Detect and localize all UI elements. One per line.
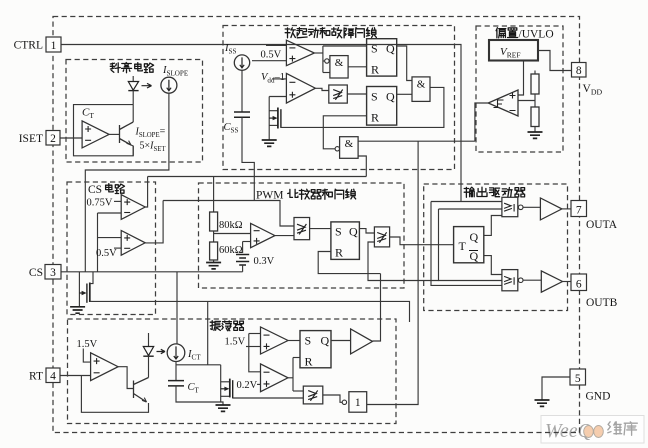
AND gate A2: [412, 77, 430, 102]
ground below M_ss: [262, 140, 277, 146]
pin 1 box: [46, 37, 61, 52]
wire between 80k and 60k: [213, 231, 215, 242]
OR gate O_osc: [303, 386, 323, 404]
current source I_SLOPE: [161, 77, 177, 93]
SR latch SR1: [367, 39, 397, 76]
transistor Q1: [120, 122, 134, 145]
wire O_out to T flip-flop: [390, 237, 454, 245]
resistor 60k: [210, 242, 218, 260]
svg-text:Q: Q: [386, 42, 395, 56]
CS circuit dashed box: [67, 182, 156, 315]
wire M_osc gate to OR: [233, 397, 304, 399]
wire UVLO output to shutdown AND: [475, 103, 488, 141]
wire Q1 emitter to loop: [131, 145, 133, 156]
svg-text:1.5V: 1.5V: [77, 339, 98, 350]
title zhen-dang-qi (oscillator): [210, 321, 243, 331]
pin 7 box: [571, 201, 587, 217]
capacitor C_SS: [234, 112, 250, 117]
pin 3 box: [45, 265, 61, 280]
UVLO hysteresis comparator: [488, 90, 518, 116]
svg-text:R: R: [305, 355, 313, 369]
svg-text:7: 7: [576, 204, 582, 216]
OR gate O1: [329, 85, 348, 103]
mirror arrow to I_CT: [157, 349, 166, 353]
pin 2 box: [46, 131, 60, 146]
svg-text:Q: Q: [321, 334, 330, 348]
wire second input of output OR from blanking: [368, 242, 439, 281]
oscillator SR latch: [300, 331, 331, 368]
long rail soft-start to CS comparator: [148, 176, 367, 178]
wire 60k to ground: [213, 260, 215, 263]
wire CS input rail: [61, 271, 243, 273]
wire latch Q to output OR: [359, 229, 374, 233]
wire soft-start voltage to comparator plus: [269, 96, 286, 98]
battery 0.3V offset: [242, 242, 244, 254]
svg-text:GND: GND: [586, 391, 611, 403]
inverter gate 1: [349, 392, 367, 413]
title ruan-qi-dong-he-gu-zhang-shan-suo (soft start and fault latch): [285, 28, 376, 38]
wire A3 output down to PWM rail: [358, 156, 366, 177]
wire divider tap to PWM comparator minus: [214, 233, 251, 235]
wire M_cs source to oscillator rail: [90, 300, 92, 302]
comparator U_ss2: [286, 73, 315, 103]
wire U_osc2 out to latch R and OR: [288, 377, 293, 379]
wire CS rail down to I_CT: [176, 272, 178, 344]
svg-text:&: &: [345, 138, 354, 150]
wire SR2 R input from reset net: [323, 116, 366, 149]
wire pin5 to ground: [542, 377, 570, 400]
svg-text:S: S: [335, 225, 342, 239]
pin 5 box: [570, 369, 586, 385]
SR latch SR2: [367, 87, 397, 126]
title xie-lv-dian-lu (slope circuit): [110, 63, 153, 73]
wire T Qbar to bottom NOR: [484, 256, 502, 275]
AND gate A1: [330, 56, 348, 78]
PWM comparator U_pwm: [251, 223, 275, 247]
wire 0.75V to comparator plus: [114, 200, 121, 202]
wire A1 out to SR1 R: [348, 66, 367, 68]
comparator U_cs1: [121, 195, 145, 220]
op-amp U_slope: [82, 121, 109, 148]
wire UVLO enable along A3 right edge: [358, 140, 475, 142]
wire I_SLOPE output down and left into CS node: [85, 93, 169, 272]
wire RT to oscillator comparator: [60, 375, 91, 377]
svg-text:Q: Q: [470, 230, 479, 244]
wire comparator1 out to latch S and AND bubble: [314, 52, 323, 54]
wire ramp node to rail and M_osc drain: [176, 364, 221, 366]
resistor R1: [531, 74, 539, 94]
svg-text:Q: Q: [349, 225, 358, 239]
bubble of N_b: [518, 278, 523, 283]
wire Q1 collector to diode: [132, 105, 134, 122]
svg-text:8: 8: [576, 65, 582, 77]
wire U_cs1 output up to rail: [145, 177, 148, 208]
wire AND gate second input: [323, 72, 330, 74]
wire rail down to 80k: [213, 177, 215, 213]
wire below R2 to ground: [534, 127, 536, 133]
NOR gate N_a: [502, 197, 518, 216]
wire clock buffer out: [373, 274, 381, 341]
title pian-zhi/UVLO: [496, 28, 517, 38]
wire M_cs drain to CS input: [90, 272, 93, 284]
current source I_CT: [167, 344, 185, 362]
svg-text:&: &: [335, 57, 344, 69]
resistor R2: [531, 107, 539, 127]
watermark wei-ku: [608, 422, 638, 436]
transistor Q2: [134, 378, 149, 403]
resistor 80k: [210, 212, 218, 231]
svg-text:CS: CS: [88, 184, 102, 196]
wire Q2 collector to mirror diode: [148, 358, 150, 378]
wire O_osc out to inverter: [323, 395, 342, 402]
wire divider tap to comparator: [518, 100, 535, 102]
wire 1.5V to comparator plus: [83, 349, 90, 363]
PWM comparator/latch dashed box: [199, 183, 405, 288]
wire driver A to pin 7: [562, 208, 571, 210]
wire latch R input from clock: [318, 252, 380, 274]
wire junction down to divider: [534, 71, 536, 75]
svg-text:6: 6: [576, 278, 582, 290]
svg-text:Q: Q: [470, 249, 479, 263]
svg-text:1.5V: 1.5V: [225, 337, 246, 348]
current source I_SS: [234, 55, 249, 70]
wire comparator2 out to OR gate: [316, 88, 329, 90]
wire I_CT to timing cap node: [175, 362, 177, 381]
mirror diode D1: [132, 76, 134, 82]
wire VREF bottom to comparator plus: [518, 61, 524, 96]
pin 8 box: [572, 63, 587, 78]
mirror diode D2: [148, 333, 150, 347]
comparator U_osc1: [261, 327, 289, 354]
wire CTRL to top NOR: [431, 201, 502, 203]
wire U_osc1 out to latch S: [288, 340, 300, 342]
wire CTRL bus from pin1 right and down to driver logic: [61, 45, 461, 202]
mirror arrow: [142, 83, 152, 88]
wire SR2 Q to AND A2: [397, 93, 412, 95]
svg-text:S: S: [371, 42, 378, 56]
bias/UVLO dashed box: [476, 26, 563, 152]
wire C_SS node down into PWM block: [242, 117, 254, 200]
svg-text:ISET: ISET: [19, 133, 43, 145]
svg-text:CS: CS: [29, 267, 43, 279]
svg-text:0.75V: 0.75V: [87, 198, 113, 209]
wire M_ss gate from fault AND: [281, 87, 444, 127]
svg-text:/UVLO: /UVLO: [519, 29, 554, 41]
wire comparator out to OR: [275, 235, 294, 237]
wire 0.2V stub: [257, 383, 261, 385]
MOSFET M_osc discharge: [220, 365, 222, 402]
wire I_SS node to C_SS: [241, 70, 243, 112]
wire op-amp output to Q1 base: [109, 133, 119, 135]
wire soft-start ramp into OR top input: [163, 201, 294, 227]
slope circuit dashed box: [66, 60, 203, 163]
oscillator dashed box: [68, 319, 397, 424]
wire N_a to driver A: [523, 206, 540, 208]
bubble of N_a: [518, 205, 523, 210]
ground of oscillator: [216, 405, 231, 411]
svg-text:RT: RT: [29, 371, 43, 383]
svg-text:1: 1: [51, 40, 57, 52]
IC outline dashed border: [53, 17, 580, 433]
V_REF block: [489, 40, 538, 61]
svg-text:R: R: [335, 246, 343, 260]
svg-text:3: 3: [50, 267, 56, 279]
wire enable net down to oscillator inhibit gate: [367, 141, 418, 404]
bubble of inverter: [342, 400, 346, 404]
svg-text:&: &: [417, 78, 426, 90]
input bubble of AND gate: [325, 59, 329, 63]
svg-text:80kΩ: 80kΩ: [219, 220, 243, 231]
wire 1.5V to upper osc comparator plus: [246, 346, 261, 348]
wire N_b to driver B: [523, 279, 541, 281]
NOR gate N_b: [502, 270, 518, 291]
wire between divider resistors: [534, 94, 536, 107]
svg-text:5: 5: [575, 373, 581, 385]
wire 0.5V to comparator minus: [266, 44, 286, 46]
wire O_pwm out to latch S: [310, 228, 331, 230]
comparator U_osc2: [261, 364, 289, 392]
wire latch Q to clock buffer: [331, 340, 351, 342]
clock buffer: [351, 329, 373, 354]
wire battery to comparator plus: [243, 241, 251, 243]
wire C_T bottom to ground rail: [176, 386, 223, 405]
capacitor C_T: [168, 381, 184, 386]
watermark box: [541, 416, 644, 444]
svg-text:PWM: PWM: [256, 190, 283, 202]
svg-text:OUTA: OUTA: [586, 219, 618, 231]
wire comparator plus input: [252, 60, 286, 62]
wire U_cs2 output to PWM input rail: [145, 201, 163, 243]
soft-start/fault-latch dashed box: [223, 26, 455, 170]
svg-text:4: 4: [50, 370, 56, 382]
svg-text:R: R: [371, 111, 379, 125]
comparator U_rt: [91, 353, 119, 381]
wire RT feedback loop: [81, 376, 148, 413]
svg-text:S: S: [371, 90, 378, 104]
comparator U_ss1: [286, 40, 314, 65]
title shu-chu-qu-dong-qi (output driver): [464, 187, 524, 197]
watermark o letters: [584, 426, 594, 438]
wire O1 out to SR2 S: [347, 93, 366, 95]
OR gate O_pwm: [294, 218, 310, 240]
wire SR1 Q to AND A2: [397, 46, 412, 81]
ground below M_cs: [70, 307, 85, 313]
svg-text:1: 1: [355, 397, 361, 409]
wire CTRL branch to bottom NOR: [431, 202, 502, 286]
wire U_rt out to Q2 base: [118, 367, 133, 389]
MOSFET M_ss soft-start discharge: [269, 110, 278, 112]
T flip-flop: [454, 227, 484, 263]
wire ramp to comparator minus inputs: [249, 333, 261, 335]
pin 4 box: [46, 368, 60, 383]
driver buffer B: [541, 271, 562, 292]
svg-text:S: S: [305, 334, 312, 348]
svg-text:CTRL: CTRL: [14, 40, 43, 52]
svg-text:0.5V: 0.5V: [96, 248, 117, 259]
long rail CS/ramp to PWM area: [92, 301, 410, 322]
svg-text:0.2V: 0.2V: [237, 380, 258, 391]
wire ISET to slope op-amp: [60, 137, 82, 139]
PWM SR latch: [331, 222, 360, 260]
output driver dashed box: [424, 184, 568, 311]
MOSFET M_cs on CS input: [78, 272, 80, 307]
ground of divider: [528, 132, 543, 138]
svg-text:2: 2: [50, 133, 56, 145]
comparator U_cs2: [121, 231, 145, 256]
AND gate A3 with bubble (shutdown): [335, 147, 339, 151]
wire T Q to top NOR: [484, 216, 502, 236]
wire 0.5V stub to minus: [114, 247, 121, 249]
driver buffer A: [540, 198, 562, 220]
wire VREF to pin 8: [538, 51, 572, 71]
svg-text:0.5V: 0.5V: [261, 50, 282, 61]
OR gate O_out: [374, 227, 389, 247]
wire CS sense to comparator inputs: [98, 212, 122, 214]
pin 6 box: [571, 274, 587, 291]
svg-text:OUTB: OUTB: [586, 297, 618, 309]
wire Vdd comparator minus stub: [272, 78, 286, 80]
wire driver B to pin 6: [563, 281, 572, 283]
ground at pin 5: [535, 400, 550, 406]
svg-text:T: T: [459, 239, 467, 253]
svg-text:R: R: [371, 63, 379, 77]
svg-text:0.3V: 0.3V: [254, 256, 275, 267]
ground below 60k: [206, 263, 221, 269]
svg-text:Q: Q: [386, 90, 395, 104]
wire slope feedback loop: [74, 105, 134, 156]
wire clock to NOR gates: [439, 209, 502, 281]
